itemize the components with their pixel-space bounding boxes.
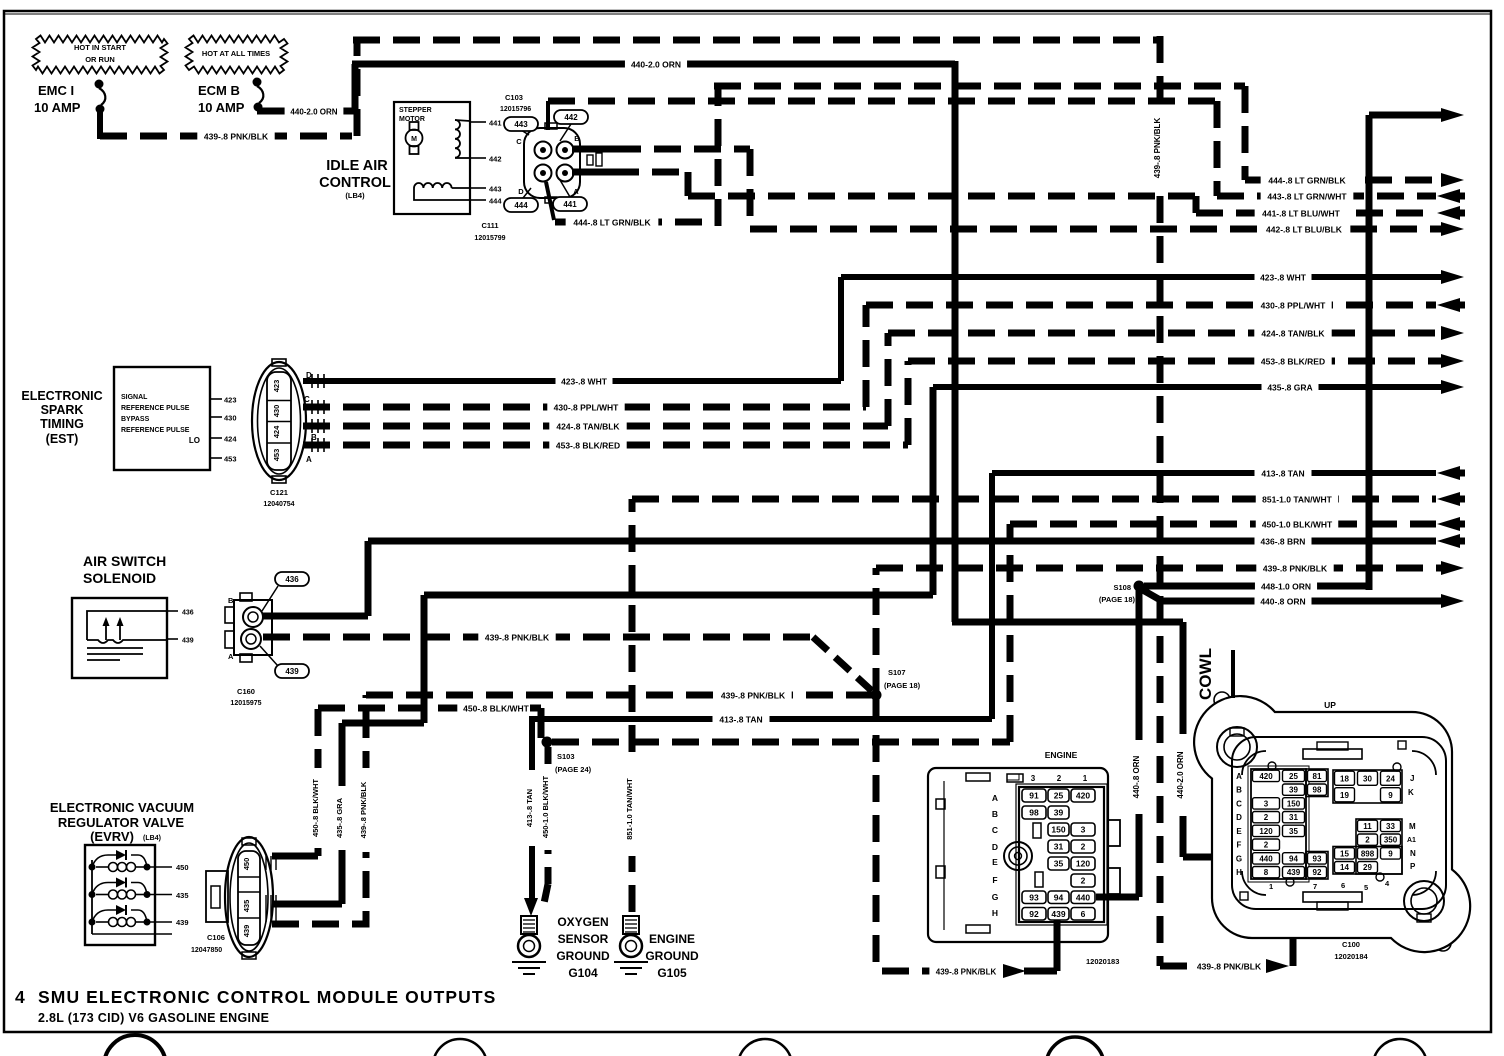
svg-text:15: 15 <box>1340 849 1349 858</box>
svg-text:2: 2 <box>1365 836 1370 845</box>
label IDLE AIR CONTROL <box>319 158 391 200</box>
svg-text:B: B <box>228 596 234 605</box>
label AIR SWITCH SOLENOID <box>83 553 166 586</box>
label ELECTRONIC SPARK TIMING EST <box>21 389 102 446</box>
svg-text:439-.8 PNK/BLK: 439-.8 PNK/BLK <box>204 132 269 142</box>
svg-text:439: 439 <box>285 667 299 676</box>
svg-text:435: 435 <box>242 900 251 913</box>
svg-text:442-.8 LT BLU/BLK: 442-.8 LT BLU/BLK <box>1266 225 1343 235</box>
wire 440-.8 ORN to ECM <box>1141 589 1464 608</box>
svg-text:REGULATOR VALVE: REGULATOR VALVE <box>58 815 184 830</box>
ENGINE connector C...12020183 <box>928 750 1120 966</box>
svg-text:S107: S107 <box>888 668 906 677</box>
svg-text:S108: S108 <box>1113 583 1131 592</box>
svg-text:12020183: 12020183 <box>1086 957 1119 966</box>
svg-text:441-.8 LT BLU/WHT: 441-.8 LT BLU/WHT <box>1262 209 1341 219</box>
svg-text:F: F <box>992 875 997 885</box>
svg-text:439-.8 PNK/BLK: 439-.8 PNK/BLK <box>721 691 786 701</box>
svg-text:453-.8 BLK/RED: 453-.8 BLK/RED <box>1261 357 1325 367</box>
power source box HOT IN START OR RUN <box>33 36 168 74</box>
svg-text:(LB4): (LB4) <box>345 191 365 200</box>
svg-text:9: 9 <box>1388 849 1393 858</box>
svg-text:430-.8 PPL/WHT: 430-.8 PPL/WHT <box>1261 301 1327 311</box>
svg-text:B: B <box>992 809 998 819</box>
svg-text:440-2.0 ORN: 440-2.0 ORN <box>290 108 337 117</box>
wire 450-.8 BLK/WHT from EVRV <box>272 701 541 856</box>
wire 435-.8 GRA to ECM <box>933 380 1464 394</box>
wire 851-1.0 TAN/WHT to ECM <box>632 492 1465 506</box>
svg-text:C103: C103 <box>505 93 523 102</box>
svg-text:SMU ELECTRONIC CONTROL MODULE: SMU ELECTRONIC CONTROL MODULE OUTPUTS <box>38 987 496 1007</box>
svg-text:420: 420 <box>1259 772 1273 781</box>
svg-text:442: 442 <box>564 113 578 122</box>
svg-text:93: 93 <box>1029 892 1039 902</box>
wire 439-.8 PNK/BLK splice to ENGINE connector <box>876 695 1057 978</box>
wire 439-.8 PNK/BLK from EMC I fuse <box>100 129 352 143</box>
svg-text:430: 430 <box>224 414 237 423</box>
svg-text:440: 440 <box>1076 892 1090 902</box>
wire 440-2.0 ORN vertical to COWL <box>952 61 1251 857</box>
svg-text:D: D <box>518 187 524 196</box>
svg-text:898: 898 <box>1361 849 1375 858</box>
wire 424-.8 TAN/BLK to ECM <box>888 326 1464 340</box>
svg-text:11: 11 <box>1363 822 1372 831</box>
splice S107 <box>871 668 921 701</box>
svg-text:C111: C111 <box>481 221 498 230</box>
svg-text:REFERENCE PULSE: REFERENCE PULSE <box>121 427 190 434</box>
svg-text:C160: C160 <box>237 687 255 696</box>
svg-text:C: C <box>516 137 522 146</box>
wire 423-.8 WHT from EST <box>303 277 841 388</box>
wire 435-.8 GRA from EVRV <box>272 387 933 904</box>
svg-text:120: 120 <box>1076 859 1090 869</box>
svg-text:ECM B: ECM B <box>198 83 240 98</box>
COWL connector C100 12020184 <box>1194 692 1470 961</box>
svg-text:93: 93 <box>1313 854 1322 863</box>
svg-text:STEPPER: STEPPER <box>399 107 432 114</box>
wire 450-1.0 BLK/WHT to G104 <box>541 747 555 908</box>
splice S103 <box>542 737 592 775</box>
wire 440-.8 ORN to ENGINE connector <box>1096 590 1146 897</box>
svg-text:430: 430 <box>272 405 281 418</box>
svg-text:29: 29 <box>1363 863 1372 872</box>
svg-text:35: 35 <box>1289 827 1298 836</box>
svg-text:35: 35 <box>1054 859 1064 869</box>
connector C103 <box>500 93 602 212</box>
svg-text:LO: LO <box>189 436 200 445</box>
svg-text:436: 436 <box>285 575 299 584</box>
svg-text:92: 92 <box>1029 909 1039 919</box>
wire 453-.8 BLK/RED from EST <box>303 361 908 452</box>
svg-text:P: P <box>1410 862 1416 871</box>
label OXYGEN SENSOR GROUND G104 <box>556 915 610 980</box>
svg-text:3: 3 <box>1081 825 1086 835</box>
wire 424-.8 TAN/BLK from EST <box>303 333 888 433</box>
svg-text:413-.8 TAN: 413-.8 TAN <box>719 715 762 725</box>
wire 430-.8 PPL/WHT from EST <box>303 305 866 414</box>
svg-text:444-.8 LT GRN/BLK: 444-.8 LT GRN/BLK <box>573 218 651 228</box>
svg-text:H: H <box>992 908 998 918</box>
svg-text:413-.8 TAN: 413-.8 TAN <box>525 789 534 827</box>
wire 439-.8 PNK/BLK from air switch solenoid <box>263 630 872 691</box>
wire 448-1.0 ORN vertical to top arrow <box>1369 108 1464 590</box>
title SMU ELECTRONIC CONTROL MODULE OUTPUTS <box>15 987 496 1025</box>
svg-text:A: A <box>306 455 312 464</box>
ground G105 ring terminal <box>614 916 648 974</box>
svg-text:444: 444 <box>514 201 528 210</box>
svg-text:439: 439 <box>1287 868 1301 877</box>
wire 440-2.0 ORN from ECM B fuse <box>257 57 955 118</box>
svg-text:19: 19 <box>1340 791 1349 800</box>
svg-text:E: E <box>992 857 998 867</box>
svg-text:(PAGE 18): (PAGE 18) <box>1099 595 1136 604</box>
air switch solenoid <box>72 598 194 678</box>
svg-text:1: 1 <box>1083 774 1088 783</box>
power source box HOT AT ALL TIMES <box>186 36 288 74</box>
svg-text:413-.8 TAN: 413-.8 TAN <box>1261 469 1304 479</box>
svg-text:AIR SWITCH: AIR SWITCH <box>83 553 166 569</box>
svg-text:448-1.0 ORN: 448-1.0 ORN <box>1261 582 1311 592</box>
svg-text:REFERENCE PULSE: REFERENCE PULSE <box>121 405 190 412</box>
svg-text:441: 441 <box>489 119 502 128</box>
electronic spark timing module <box>114 367 237 470</box>
svg-text:92: 92 <box>1313 868 1322 877</box>
svg-text:SPARK: SPARK <box>41 403 84 417</box>
svg-text:(EST): (EST) <box>46 432 79 446</box>
svg-text:14: 14 <box>1340 863 1349 872</box>
wire 439-.8 PNK/BLK riser from EVRV <box>272 695 373 924</box>
svg-text:150: 150 <box>1287 799 1301 808</box>
wire 444-.8 LT GRN/BLK to ECM <box>1245 173 1464 187</box>
svg-text:441: 441 <box>563 200 577 209</box>
svg-text:F: F <box>1237 841 1242 850</box>
svg-text:2: 2 <box>1081 842 1086 852</box>
svg-text:7: 7 <box>1313 882 1317 891</box>
svg-text:439: 439 <box>176 918 189 927</box>
svg-text:(PAGE 24): (PAGE 24) <box>555 765 592 774</box>
svg-text:ELECTRONIC VACUUM: ELECTRONIC VACUUM <box>50 800 194 815</box>
svg-text:439-.8 PNK/BLK: 439-.8 PNK/BLK <box>936 968 997 977</box>
svg-text:39: 39 <box>1289 786 1298 795</box>
svg-text:436: 436 <box>182 610 194 617</box>
svg-text:(PAGE 18): (PAGE 18) <box>884 681 921 690</box>
svg-text:S103: S103 <box>557 752 575 761</box>
fuse EMC I 10 AMP <box>34 80 105 140</box>
fuse ECM B 10 AMP <box>198 78 263 116</box>
svg-text:ENGINE: ENGINE <box>1045 750 1078 760</box>
svg-text:424: 424 <box>272 425 281 438</box>
svg-text:1: 1 <box>1269 882 1273 891</box>
wire 444 from C103 pin D <box>546 86 1245 229</box>
svg-text:A: A <box>992 793 998 803</box>
svg-text:SOLENOID: SOLENOID <box>83 570 156 586</box>
svg-text:OXYGEN: OXYGEN <box>557 915 608 929</box>
svg-text:6: 6 <box>1341 881 1345 890</box>
svg-text:G: G <box>992 892 999 902</box>
svg-text:420: 420 <box>1076 791 1090 801</box>
svg-text:A1: A1 <box>1407 837 1416 844</box>
label COWL <box>1196 648 1233 700</box>
svg-text:EMC I: EMC I <box>38 83 74 98</box>
svg-text:450-1.0 BLK/WHT: 450-1.0 BLK/WHT <box>1262 520 1333 530</box>
wire 441-.8 LT BLU/WHT to ECM <box>1196 206 1465 220</box>
svg-text:6: 6 <box>1081 909 1086 919</box>
svg-text:12015796: 12015796 <box>500 106 531 113</box>
svg-text:12040754: 12040754 <box>263 501 294 508</box>
svg-text:440-2.0 ORN: 440-2.0 ORN <box>1176 751 1185 798</box>
svg-text:H: H <box>1236 868 1242 877</box>
svg-text:D: D <box>1236 813 1242 822</box>
svg-text:18: 18 <box>1340 774 1349 783</box>
svg-text:423-.8 WHT: 423-.8 WHT <box>561 377 608 387</box>
svg-text:3: 3 <box>1031 774 1036 783</box>
svg-text:HOT IN START: HOT IN START <box>74 43 126 52</box>
svg-text:C: C <box>992 825 998 835</box>
svg-text:442: 442 <box>489 155 502 164</box>
svg-text:25: 25 <box>1054 791 1064 801</box>
connector C121 <box>252 359 324 508</box>
svg-text:SENSOR: SENSOR <box>558 932 609 946</box>
svg-text:39: 39 <box>1054 808 1064 818</box>
svg-text:450-.8 BLK/WHT: 450-.8 BLK/WHT <box>463 704 529 714</box>
svg-text:C121: C121 <box>270 488 288 497</box>
svg-text:C: C <box>1236 799 1242 808</box>
svg-text:4: 4 <box>15 987 25 1007</box>
svg-text:453-.8 BLK/RED: 453-.8 BLK/RED <box>556 441 620 451</box>
svg-text:UP: UP <box>1324 700 1336 710</box>
label ENGINE GROUND G105 <box>645 932 699 980</box>
svg-text:C106: C106 <box>207 933 225 942</box>
svg-text:2: 2 <box>1264 841 1269 850</box>
svg-text:2: 2 <box>1057 774 1062 783</box>
svg-text:440: 440 <box>1259 854 1273 863</box>
svg-text:450: 450 <box>176 863 189 872</box>
svg-text:COWL: COWL <box>1196 648 1215 700</box>
svg-text:B: B <box>574 134 580 143</box>
svg-text:94: 94 <box>1054 892 1064 902</box>
svg-text:12015975: 12015975 <box>230 700 261 707</box>
wire 430-.8 PPL/WHT to ECM <box>866 298 1465 312</box>
svg-text:M: M <box>1409 822 1416 831</box>
svg-text:SIGNAL: SIGNAL <box>121 394 148 401</box>
svg-text:E: E <box>1236 827 1242 836</box>
svg-text:J: J <box>1410 774 1414 783</box>
svg-text:B: B <box>1236 786 1242 795</box>
svg-text:350: 350 <box>1384 836 1398 845</box>
svg-text:440-.8 ORN: 440-.8 ORN <box>1132 755 1141 798</box>
svg-text:424-.8 TAN/BLK: 424-.8 TAN/BLK <box>556 422 620 432</box>
svg-text:453: 453 <box>272 449 281 462</box>
svg-text:C100: C100 <box>1342 940 1360 949</box>
splice S108 <box>1099 581 1145 605</box>
svg-text:C: C <box>304 395 310 404</box>
svg-text:G: G <box>1236 854 1242 863</box>
connector C111 label <box>474 221 505 242</box>
wire 413-.8 TAN to ECM <box>529 466 1465 726</box>
svg-text:D: D <box>992 842 998 852</box>
svg-text:120: 120 <box>1259 827 1273 836</box>
svg-text:ELECTRONIC: ELECTRONIC <box>21 389 102 403</box>
svg-text:423: 423 <box>272 380 281 393</box>
wire 413-.8 TAN to G104 <box>524 719 539 916</box>
wire 439 riser to top rail <box>354 40 361 136</box>
svg-text:BYPASS: BYPASS <box>121 416 150 423</box>
svg-text:443: 443 <box>489 185 502 194</box>
svg-text:424-.8 TAN/BLK: 424-.8 TAN/BLK <box>1261 329 1325 339</box>
svg-text:5: 5 <box>1364 883 1368 892</box>
idle air control pin stubs 441 442 443 444 <box>470 119 502 206</box>
svg-text:D: D <box>306 371 312 380</box>
svg-text:453: 453 <box>224 455 237 464</box>
svg-text:CONTROL: CONTROL <box>319 175 391 191</box>
wire 448-1.0 ORN <box>1144 579 1369 593</box>
svg-text:98: 98 <box>1313 786 1322 795</box>
svg-text:9: 9 <box>1388 791 1393 800</box>
svg-text:HOT AT ALL TIMES: HOT AT ALL TIMES <box>202 49 270 58</box>
svg-text:430-.8 PPL/WHT: 430-.8 PPL/WHT <box>554 403 620 413</box>
svg-text:439: 439 <box>1051 909 1065 919</box>
ground G104 ring terminal <box>512 916 546 974</box>
svg-text:3: 3 <box>1264 799 1269 808</box>
svg-text:10 AMP: 10 AMP <box>34 100 81 115</box>
svg-text:91: 91 <box>1029 791 1039 801</box>
wire 851-1.0 TAN/WHT to G105 <box>625 499 639 912</box>
wire 436-.8 BRN from air switch solenoid <box>263 534 1465 616</box>
wire 442 from C103 pin B <box>572 149 750 229</box>
svg-text:25: 25 <box>1289 772 1298 781</box>
svg-text:N: N <box>1410 849 1416 858</box>
svg-text:A: A <box>1236 772 1242 781</box>
svg-text:(LB4): (LB4) <box>143 835 161 842</box>
svg-text:440-2.0 ORN: 440-2.0 ORN <box>631 60 681 70</box>
svg-text:2: 2 <box>1081 876 1086 886</box>
svg-text:31: 31 <box>1054 842 1064 852</box>
svg-text:98: 98 <box>1029 808 1039 818</box>
bottom border line <box>4 1031 1491 1033</box>
wire 439 row from EVRV riser to splice S107 <box>366 688 872 702</box>
svg-text:12015799: 12015799 <box>474 235 505 242</box>
wire 439 top rail <box>353 37 1157 44</box>
wire 443-.8 LT GRN/WHT to ECM <box>1217 189 1465 203</box>
svg-text:435: 435 <box>176 891 189 900</box>
label ELECTRONIC VACUUM REGULATOR VALVE <box>50 800 194 844</box>
svg-text:12020184: 12020184 <box>1334 952 1368 961</box>
wire 423-.8 WHT to ECM <box>841 270 1464 284</box>
svg-text:81: 81 <box>1313 772 1322 781</box>
svg-text:A: A <box>228 652 234 661</box>
wire 439-.8 PNK/BLK into COWL connector <box>1160 884 1293 973</box>
svg-text:444-.8 LT GRN/BLK: 444-.8 LT GRN/BLK <box>1268 176 1346 186</box>
svg-text:851-1.0 TAN/WHT: 851-1.0 TAN/WHT <box>625 778 634 840</box>
svg-text:TIMING: TIMING <box>40 417 84 431</box>
svg-text:24: 24 <box>1386 774 1395 783</box>
svg-text:G105: G105 <box>657 966 687 980</box>
svg-text:ENGINE: ENGINE <box>649 932 695 946</box>
svg-text:OR RUN: OR RUN <box>85 55 115 64</box>
wire 442-.8 LT BLU/BLK to ECM <box>750 222 1464 236</box>
svg-text:424: 424 <box>224 435 237 444</box>
svg-text:440-.8 ORN: 440-.8 ORN <box>1260 597 1305 607</box>
svg-text:30: 30 <box>1363 774 1372 783</box>
svg-text:851-1.0 TAN/WHT: 851-1.0 TAN/WHT <box>1262 495 1333 505</box>
wire 450-1.0 BLK/WHT splice to ECM <box>552 517 1465 742</box>
svg-text:423-.8 WHT: 423-.8 WHT <box>1260 273 1307 283</box>
svg-text:10 AMP: 10 AMP <box>198 100 245 115</box>
svg-text:K: K <box>1408 788 1414 797</box>
svg-text:450-1.0 BLK/WHT: 450-1.0 BLK/WHT <box>541 776 550 839</box>
binder punch holes <box>104 1035 1427 1056</box>
svg-text:450-.8 BLK/WHT: 450-.8 BLK/WHT <box>311 779 320 837</box>
svg-text:439-.8 PNK/BLK: 439-.8 PNK/BLK <box>485 633 550 643</box>
svg-text:439: 439 <box>182 638 194 645</box>
svg-text:2: 2 <box>1264 813 1269 822</box>
svg-text:439-.8 PNK/BLK: 439-.8 PNK/BLK <box>1153 118 1162 179</box>
wire 443 from C103 pin C <box>548 101 1217 196</box>
wire 439-.8 PNK/BLK splice to ECM <box>876 561 1464 695</box>
wire 441 from C103 pin A <box>572 172 1196 213</box>
connector C160 <box>225 572 309 707</box>
svg-text:423: 423 <box>224 396 237 405</box>
svg-text:443: 443 <box>514 120 528 129</box>
svg-text:G104: G104 <box>568 966 598 980</box>
svg-text:435-.8 GRA: 435-.8 GRA <box>1267 383 1312 393</box>
svg-text:435-.8 GRA: 435-.8 GRA <box>335 797 344 838</box>
svg-text:A: A <box>573 187 579 196</box>
electronic vacuum regulator valve EVRV <box>85 845 189 945</box>
idle air control module <box>394 102 470 214</box>
svg-text:8: 8 <box>1264 868 1269 877</box>
wire 439-.8 PNK/BLK long vertical <box>1153 36 1167 966</box>
svg-text:(EVRV): (EVRV) <box>90 829 134 844</box>
wire 453-.8 BLK/RED to ECM <box>908 354 1464 368</box>
svg-text:439: 439 <box>242 925 251 938</box>
svg-text:GROUND: GROUND <box>645 949 699 963</box>
svg-text:94: 94 <box>1289 854 1298 863</box>
svg-text:12047850: 12047850 <box>191 947 222 954</box>
svg-text:33: 33 <box>1386 822 1395 831</box>
svg-text:439-.8 PNK/BLK: 439-.8 PNK/BLK <box>359 781 368 838</box>
svg-text:31: 31 <box>1289 813 1298 822</box>
svg-text:GROUND: GROUND <box>556 949 610 963</box>
svg-text:2.8L (173 CID) V6 GASOLINE ENG: 2.8L (173 CID) V6 GASOLINE ENGINE <box>38 1011 269 1025</box>
svg-text:444: 444 <box>489 197 502 206</box>
svg-text:450: 450 <box>242 858 251 871</box>
connector C106 <box>191 837 276 959</box>
svg-text:M: M <box>411 136 417 143</box>
svg-text:IDLE AIR: IDLE AIR <box>326 158 388 174</box>
svg-text:150: 150 <box>1051 825 1065 835</box>
svg-text:443-.8 LT GRN/WHT: 443-.8 LT GRN/WHT <box>1267 192 1347 202</box>
svg-text:439-.8 PNK/BLK: 439-.8 PNK/BLK <box>1197 962 1262 972</box>
svg-text:439-.8 PNK/BLK: 439-.8 PNK/BLK <box>1263 564 1328 574</box>
svg-text:436-.8 BRN: 436-.8 BRN <box>1261 537 1306 547</box>
